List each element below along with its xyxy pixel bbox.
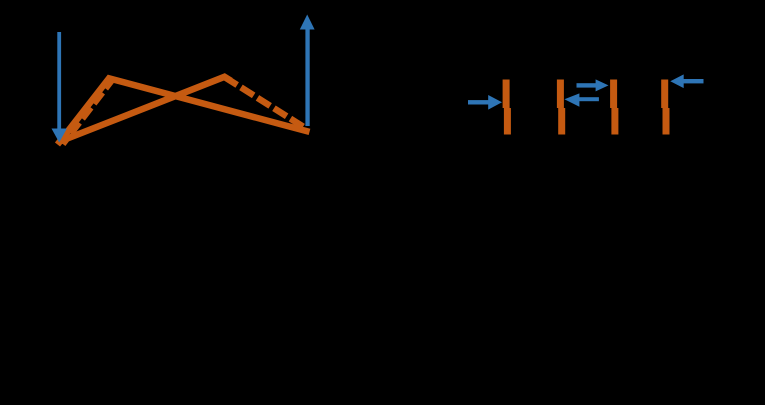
particle arrow D (left, into P4) <box>670 74 703 88</box>
velocity arrow right (up) <box>300 15 315 127</box>
particle arrow B (right, into P3) <box>577 79 609 91</box>
particle bar P4 <box>661 80 669 135</box>
particle arrow A (right, into P1) <box>468 95 502 110</box>
wave pulse 1 dashed (shifted) <box>63 78 114 144</box>
velocity arrow left (down) <box>52 32 67 143</box>
wave pulse 2 right side dashed <box>225 77 307 129</box>
wave pulse 1 solid <box>58 78 310 144</box>
wave pulse 2 left side solid <box>59 77 232 142</box>
particle bar P2 <box>557 80 565 135</box>
particle arrow C (left, into P2) <box>564 93 599 106</box>
particle bar P1 <box>503 80 511 135</box>
particle bar P3 <box>610 80 618 135</box>
